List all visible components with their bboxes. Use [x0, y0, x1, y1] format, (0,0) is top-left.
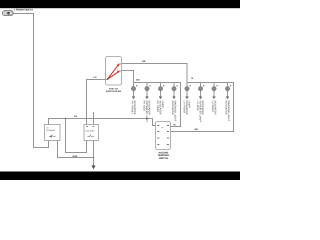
svg-text:PART OF: PART OF	[109, 88, 119, 91]
bulb	[158, 87, 162, 91]
bottom black bar	[0, 172, 240, 181]
wire stub	[133, 83, 135, 87]
lamp L2 RH side repeater	[143, 83, 151, 123]
bulb	[131, 87, 135, 91]
lamp L6 LH side repeater	[196, 83, 204, 123]
lamp L7 LH rear indicator	[211, 83, 218, 115]
svg-text:GR: GR	[142, 60, 146, 63]
lamp L4 RH warning light	[171, 83, 178, 122]
relay unit RL1	[84, 125, 99, 141]
hazard warning switch S2	[156, 122, 171, 150]
wire GW switch pin 2 to left bus	[122, 71, 134, 83]
svg-text:LAMP: LAMP	[161, 101, 164, 108]
wire stub relay top right	[93, 112, 95, 125]
earth arrow	[159, 96, 162, 99]
svg-text:INDICATOR: INDICATOR	[171, 101, 174, 115]
wire stub	[173, 83, 175, 87]
connector C1 in-line fuse from fuse F2	[2, 11, 13, 16]
svg-text:GND: GND	[73, 155, 78, 158]
pin 2 tick	[177, 85, 178, 87]
node junction B	[93, 157, 95, 159]
wire earth from flasher unit	[58, 141, 94, 158]
wire to earth arrow	[173, 91, 175, 96]
indicator switch U1	[106, 57, 122, 86]
bulb	[185, 87, 189, 91]
wire GR switch pin 1 to right bus	[122, 64, 188, 83]
svg-text:INDICATOR: INDICATOR	[133, 101, 136, 115]
pin 2 tick	[203, 85, 204, 87]
svg-text:LG: LG	[94, 76, 97, 79]
ground arrow	[91, 165, 95, 169]
svg-text:GN: GN	[136, 79, 140, 82]
bulb	[198, 87, 202, 91]
wire left lamp bus	[134, 83, 181, 127]
svg-text:SWITCH: SWITCH	[159, 157, 168, 160]
lamp L8 LH warning light	[224, 83, 231, 122]
earth arrow	[199, 96, 202, 99]
pin 2 tick	[190, 85, 191, 87]
svg-text:LG: LG	[74, 115, 77, 118]
wire stub	[146, 83, 148, 87]
svg-text:INDICATOR: INDICATOR	[213, 101, 216, 115]
wire to earth arrow	[133, 91, 135, 96]
svg-text:1: 1	[117, 61, 118, 64]
wire to earth arrow	[146, 91, 148, 96]
svg-text:GB: GB	[195, 128, 199, 131]
earth arrow	[172, 96, 175, 99]
pin 2 tick	[217, 85, 218, 87]
bulb	[212, 87, 216, 91]
flasher unit FL1	[45, 125, 61, 141]
svg-text:HAZARD: HAZARD	[159, 151, 169, 154]
earth arrow	[212, 96, 215, 99]
pin 2 tick	[136, 85, 137, 87]
wire to earth arrow	[227, 91, 229, 96]
bulb	[225, 87, 229, 91]
wire stub	[160, 83, 162, 87]
wire stub	[213, 83, 215, 87]
top black bar	[0, 0, 240, 8]
wire LG from flasher to hazard switch	[49, 119, 157, 126]
wire to earth arrow	[213, 91, 215, 96]
svg-text:INDICATOR: INDICATOR	[201, 101, 204, 115]
wire to earth arrow	[186, 91, 188, 96]
wire to earth arrow	[160, 91, 162, 96]
svg-text:WARNING LIGHT: WARNING LIGHT	[227, 101, 230, 122]
bulb	[172, 87, 176, 91]
lamp L5 LH front indicator	[183, 83, 191, 115]
wire LG switch to relay unit	[87, 80, 106, 125]
svg-text:FLASHER: FLASHER	[46, 129, 55, 132]
svg-text:INDICATOR: INDICATOR	[147, 101, 150, 115]
svg-text:INDICATOR: INDICATOR	[224, 101, 227, 115]
svg-text:HAZ UNIT: HAZ UNIT	[86, 129, 96, 132]
lamp L3 RH rear indicator	[156, 83, 164, 115]
earth arrow	[185, 96, 188, 99]
svg-text:2: 2	[117, 68, 118, 71]
wire relay to ground	[93, 141, 95, 166]
wire right lamp bus from hazard switch	[171, 83, 234, 132]
svg-text:WARNING LIGHT: WARNING LIGHT	[173, 101, 176, 122]
svg-text:WARNING: WARNING	[158, 154, 169, 157]
earth arrow	[132, 96, 135, 99]
bulb	[145, 87, 149, 91]
svg-text:LAMP: LAMP	[187, 101, 190, 108]
node junction A	[65, 118, 67, 120]
wire fuse feed down to flasher unit	[13, 14, 48, 148]
wire stub	[200, 83, 202, 87]
pin 2 tick	[230, 85, 231, 87]
earth arrow	[226, 96, 229, 99]
wire junction A down to relay unit	[66, 119, 87, 153]
pin 2 tick	[163, 85, 164, 87]
pin 2 tick	[150, 85, 151, 87]
wire stub	[186, 83, 188, 87]
wire stub	[227, 83, 229, 87]
earth arrow	[145, 96, 148, 99]
svg-text:RH FRONT: RH FRONT	[130, 101, 133, 115]
svg-text:LH REAR: LH REAR	[211, 101, 214, 112]
svg-text:1 FROM FUSE F2: 1 FROM FUSE F2	[14, 9, 34, 12]
lamp L1 RH front indicator	[130, 83, 137, 115]
wire to earth arrow	[200, 91, 202, 96]
svg-text:INDICATOR SW: INDICATOR SW	[106, 90, 121, 93]
